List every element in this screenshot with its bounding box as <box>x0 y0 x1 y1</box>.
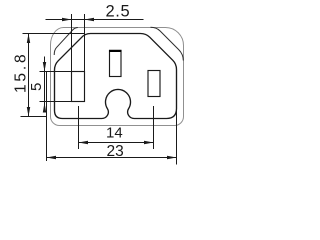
svg-text:2.5: 2.5 <box>106 3 131 21</box>
svg-text:23: 23 <box>107 143 124 160</box>
svg-text:15.8: 15.8 <box>12 52 29 93</box>
svg-text:5: 5 <box>28 83 45 91</box>
svg-text:14: 14 <box>106 125 123 142</box>
